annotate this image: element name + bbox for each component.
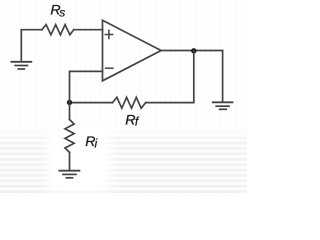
- svg-text:f: f: [135, 114, 140, 128]
- wire to inverting input: [70, 71, 103, 102]
- wire Rf to inverting node: [70, 102, 113, 104]
- ground right: [213, 102, 233, 109]
- resistor Rf: [113, 97, 146, 108]
- resistor Ri: [65, 120, 74, 153]
- wire Rs to op-amp: [74, 29, 103, 31]
- wire Ri to ground: [69, 152, 71, 170]
- node inverting junction: [67, 100, 72, 105]
- svg-text:i: i: [95, 137, 98, 151]
- op-amp U1 non-inverting input marker +: [105, 30, 112, 38]
- op-amp U1: [103, 20, 162, 81]
- wire input corner: [21, 30, 42, 60]
- label Rf: [125, 113, 140, 129]
- op-amp U1 triangle body: [103, 20, 162, 81]
- wire node to Ri: [69, 103, 71, 120]
- resistor Rs: [42, 25, 74, 35]
- wire output: [161, 50, 223, 52]
- label Ri: [85, 134, 97, 151]
- op-amp U1 inverting input marker −: [106, 67, 113, 69]
- wire right down to ground: [222, 51, 224, 102]
- wire feedback vertical: [146, 51, 194, 103]
- label Rs: [50, 3, 65, 20]
- node output junction: [191, 48, 196, 53]
- ground left: [11, 62, 31, 69]
- svg-text:s: s: [59, 6, 65, 20]
- ground bottom: [59, 171, 79, 178]
